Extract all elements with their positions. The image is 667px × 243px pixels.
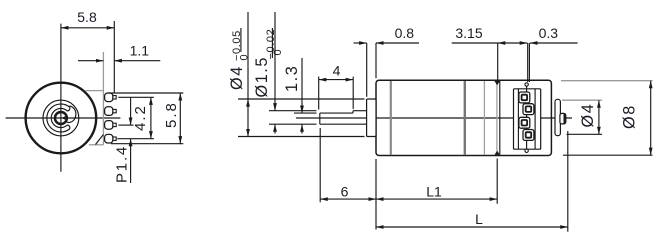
motor body [376,80,551,155]
block chamfer [96,135,104,145]
screw circle top [525,83,528,86]
dimension Ø4 rear [562,100,602,134]
dimension Ø1.5 shaft [253,12,317,134]
shaft bottom line [320,123,367,125]
vertical centerline [60,24,62,172]
dimension 4 (flat length) [319,63,354,110]
svg-text:1.3: 1.3 [283,65,301,92]
dimension 4.2 [132,97,151,138]
axis centerline [296,117,572,119]
svg-text:0: 0 [272,49,284,55]
terminal block (side) [514,89,541,149]
terminal nut 4 [523,130,534,141]
extension T3 center [118,124,133,126]
shaft flat line [320,112,353,114]
svg-text:0.8: 0.8 [395,25,415,41]
motor front face seam [499,81,501,155]
svg-text:4.2: 4.2 [132,104,149,131]
terminal nut 3 [519,117,530,128]
terminal T1 [105,93,117,102]
svg-text:0: 0 [239,54,251,60]
dimension 1.1 [78,43,160,61]
shaft flat step [352,111,354,113]
dimension 6 [320,128,376,202]
terminal nut 1 [519,92,530,103]
dimension Ø4 boss [228,12,365,137]
dimension Ø8 body [561,81,653,156]
block top edge (gray) [86,90,104,92]
dimension 5.8 vertical [163,93,180,144]
svg-text:1.1: 1.1 [130,43,150,59]
block bottom edge (gray) [89,144,104,146]
svg-text:L: L [475,211,483,227]
rear bump [560,113,566,124]
terminal T3 [105,121,117,130]
rear cap [555,99,560,135]
inner ring [43,100,79,136]
rear bump face (thick) [563,114,565,124]
extension block bottom [111,143,183,145]
shaft hub bore [55,112,67,124]
shaft full-diameter top line [353,110,367,112]
block inner wall left [517,89,519,149]
svg-text:5.8: 5.8 [163,101,180,128]
terminal block edge (gray) [102,52,104,145]
svg-text:P1.4: P1.4 [114,145,131,183]
terminal T2 [105,107,117,116]
svg-text:Ø1.5: Ø1.5 [253,56,271,98]
bearing boss [367,99,376,137]
screw circle bottom [525,149,528,152]
dimension 0.3 [529,25,577,82]
dimension L [376,131,568,232]
svg-text:Ø8: Ø8 [621,104,639,129]
dimension 0.8 [354,25,420,97]
key mark in hub [61,116,65,120]
extension T4 center [117,138,154,140]
dimension 3.15 [452,25,528,82]
horizontal centerline [6,117,121,119]
motor outer circle [26,83,97,154]
svg-text:0.3: 0.3 [539,25,559,41]
block center line [526,84,528,152]
C-shaped retainer [47,104,70,132]
svg-text:3.15: 3.15 [455,25,482,41]
dimension 5.8 top [61,9,114,93]
terminal T4 [105,134,117,143]
gearbox rear seam (dark gray) [464,81,466,155]
svg-text:4: 4 [333,63,341,79]
extension T1 center [118,96,154,98]
weld mark top [494,81,500,85]
mouth hook around hub [66,106,76,123]
svg-text:5.8: 5.8 [77,9,97,25]
terminal nut 2 [523,104,534,115]
shaft tip [319,113,321,124]
block inner wall right [534,89,536,149]
weld mark bottom [494,151,500,155]
joint ring seam 1 (gray) [483,81,485,155]
svg-text:Ø4: Ø4 [228,65,246,90]
svg-text:Ø4: Ø4 [579,103,597,128]
joint ring seam 2 (gray) [496,81,498,155]
dimension L1 [376,159,497,230]
dimension P1.4 [114,97,131,183]
svg-text:L1: L1 [426,184,442,200]
extension T1 top [108,92,183,94]
svg-text:6: 6 [341,184,349,200]
gearbox front plate seam (gray) [390,81,392,155]
dimension 1.3 flat [283,58,317,134]
